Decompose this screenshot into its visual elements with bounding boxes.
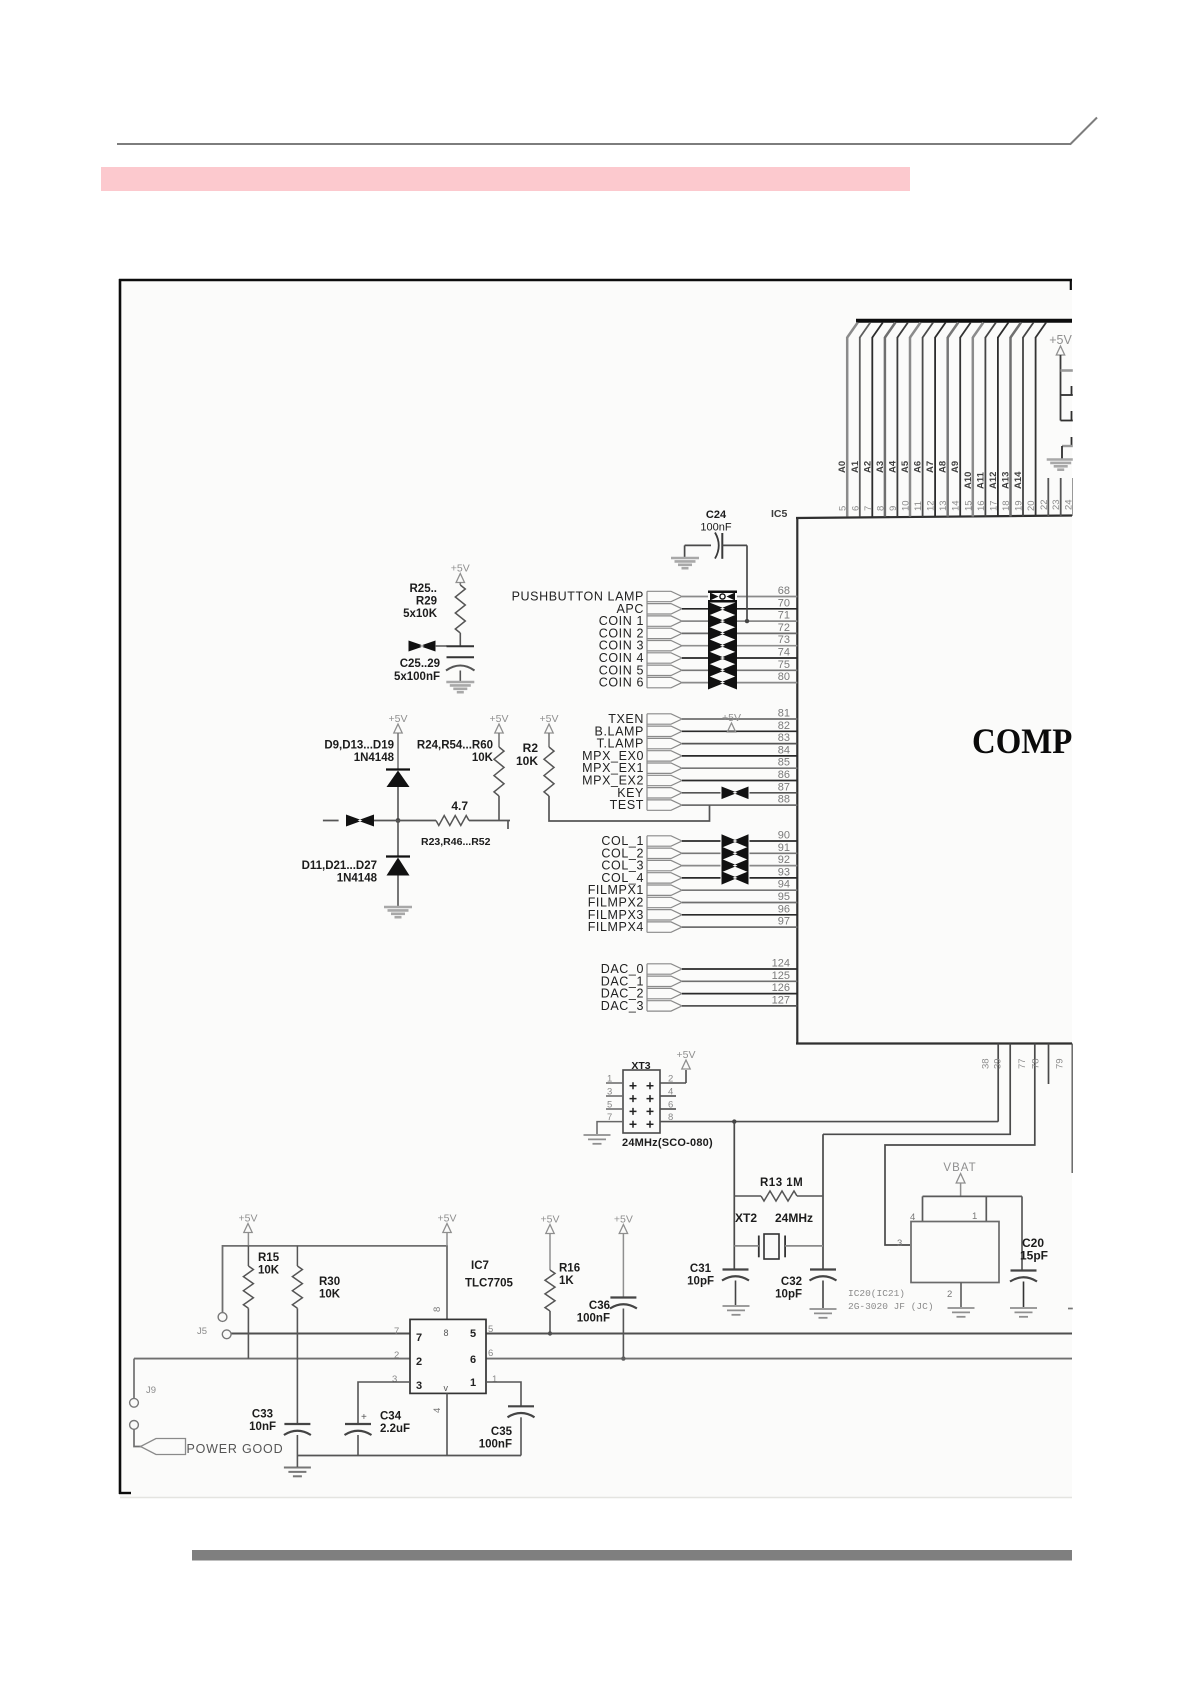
address bus wire A4 pin 9 bbox=[896, 337, 898, 517]
address bus wire A15 pin 20 bbox=[1035, 337, 1037, 517]
white mask beyond scan edge bbox=[1073, 210, 1190, 1540]
XT3 pin 4 stub bbox=[660, 1095, 676, 1097]
wire R13 left bbox=[734, 1195, 761, 1197]
svg-text:3: 3 bbox=[392, 1374, 397, 1385]
svg-text:R23,R46...R52: R23,R46...R52 bbox=[421, 836, 491, 848]
filter bead (pin 90) bbox=[722, 834, 749, 847]
svg-text:91: 91 bbox=[778, 842, 790, 854]
net flag bbox=[647, 775, 682, 785]
wire R25 to C25 bbox=[459, 633, 461, 646]
svg-text:+: + bbox=[361, 1412, 367, 1423]
capacitor C33 bbox=[284, 1423, 310, 1425]
wire D11 to gnd bbox=[397, 876, 399, 907]
wire C24 to pin71 node bbox=[722, 544, 747, 546]
net flag bbox=[647, 751, 682, 761]
wire C34 to bottom net bbox=[357, 1435, 359, 1456]
IC5 pin 79 drop (clipped) bbox=[1072, 1044, 1074, 1174]
net flag bbox=[647, 922, 682, 932]
wire R13 right bbox=[797, 1195, 823, 1197]
svg-text:88: 88 bbox=[778, 794, 790, 806]
svg-text:R30: R30 bbox=[319, 1276, 340, 1288]
svg-text:C33: C33 bbox=[252, 1409, 273, 1421]
svg-text:2G-3020 JF (JC): 2G-3020 JF (JC) bbox=[848, 1301, 934, 1312]
svg-text:78: 78 bbox=[1031, 1058, 1042, 1069]
IC5 pin 78 stub bbox=[1048, 1044, 1050, 1085]
svg-text:38: 38 bbox=[981, 1058, 992, 1069]
wire FILMPX4 to IC5 pin 97 bbox=[682, 926, 797, 928]
svg-text:93: 93 bbox=[778, 866, 790, 878]
svg-text:A13: A13 bbox=[1000, 472, 1011, 489]
wire +5V to C36 bbox=[622, 1234, 624, 1298]
net flag bbox=[647, 714, 682, 724]
rail: J5 / IC7 pin7 / pin5 line bbox=[231, 1333, 410, 1335]
capacitor C32 bbox=[810, 1268, 836, 1270]
svg-text:10K: 10K bbox=[258, 1265, 280, 1277]
address bus wire A2 pin 7 bbox=[871, 337, 873, 517]
svg-text:84: 84 bbox=[778, 744, 790, 756]
ground (C33 net) bbox=[284, 1467, 311, 1469]
svg-text:10K: 10K bbox=[472, 752, 494, 764]
svg-text:IC5: IC5 bbox=[771, 508, 788, 520]
svg-text:126: 126 bbox=[772, 982, 790, 994]
wire FILMPX1 to IC5 pin 94 bbox=[682, 889, 797, 891]
svg-text:A8: A8 bbox=[938, 461, 949, 473]
svg-text:74: 74 bbox=[778, 647, 790, 659]
svg-text:R24,R54...R60: R24,R54...R60 bbox=[417, 740, 493, 752]
wire APC to IC5 pin 70 bbox=[682, 608, 708, 610]
ground (D11) bbox=[384, 906, 412, 909]
svg-text:94: 94 bbox=[778, 879, 790, 891]
wire DAC_2 to IC5 pin 126 bbox=[682, 993, 797, 995]
wire COIN 2 to IC5 pin 72 bbox=[682, 632, 708, 634]
svg-text:127: 127 bbox=[772, 994, 790, 1006]
wire XT2 right bbox=[785, 1245, 823, 1247]
ground (C24) bbox=[671, 557, 699, 560]
net flag bbox=[647, 763, 682, 773]
net flag bbox=[647, 738, 682, 748]
resistor R13 (1M) bbox=[761, 1191, 797, 1201]
IC5 pin 77 drop to IC20 pin3 bbox=[885, 1044, 1035, 1246]
net flag bbox=[647, 800, 682, 810]
wire COL_3 to IC5 pin 92 bbox=[682, 865, 721, 867]
svg-text:68: 68 bbox=[778, 585, 790, 597]
svg-text:R2: R2 bbox=[523, 741, 539, 755]
svg-text:C32: C32 bbox=[781, 1276, 802, 1288]
svg-text:81: 81 bbox=[778, 708, 790, 720]
IC5 pin 22 stub bbox=[1047, 478, 1049, 516]
svg-text:90: 90 bbox=[778, 830, 790, 842]
svg-text:3: 3 bbox=[897, 1238, 902, 1249]
svg-text:7: 7 bbox=[394, 1326, 399, 1337]
svg-text:95: 95 bbox=[778, 891, 790, 903]
wire FILMPX2 to IC5 pin 95 bbox=[682, 902, 797, 904]
IC7 box bbox=[410, 1319, 486, 1393]
header rule diagonal end bbox=[1070, 118, 1097, 145]
svg-text:1N4148: 1N4148 bbox=[354, 752, 395, 764]
resistor R24 (10K) bbox=[494, 747, 504, 796]
svg-text:4.7: 4.7 bbox=[451, 799, 468, 813]
wire rail to J9 bbox=[133, 1359, 135, 1398]
svg-text:A10: A10 bbox=[963, 472, 974, 489]
svg-text:5: 5 bbox=[838, 506, 849, 511]
svg-text:R13 1M: R13 1M bbox=[760, 1177, 803, 1189]
svg-text:4: 4 bbox=[668, 1087, 673, 1098]
svg-text:DAC_3: DAC_3 bbox=[601, 999, 644, 1013]
wire XT3 pin2 to +5V bbox=[685, 1070, 687, 1083]
VBAT arrow bbox=[956, 1174, 965, 1184]
net flag bbox=[647, 628, 682, 638]
wire R16 to rail bbox=[549, 1311, 551, 1334]
wire COIN 3 to IC5 pin 73 bbox=[682, 645, 708, 647]
IC5 pin 23 stub bbox=[1060, 478, 1062, 516]
ground (C20) bbox=[1010, 1307, 1037, 1309]
svg-text:D11,D21...D27: D11,D21...D27 bbox=[302, 860, 377, 872]
XT3 pin 1 stub bbox=[606, 1082, 623, 1084]
svg-text:19: 19 bbox=[1014, 500, 1025, 511]
wire XT2 left bbox=[734, 1245, 759, 1247]
address bus wire A0 pin 5 bbox=[846, 337, 849, 517]
wire D9 junction to D11 bbox=[397, 821, 399, 857]
wire DAC_0 to IC5 pin 124 bbox=[682, 968, 797, 970]
wire KEY to IC5 pin 87 bbox=[682, 792, 721, 794]
wire bar to pin4 bbox=[922, 1196, 924, 1221]
svg-text:5x10K: 5x10K bbox=[403, 608, 438, 620]
svg-text:TLC7705: TLC7705 bbox=[465, 1278, 514, 1290]
XT3 pin 2 stub bbox=[660, 1082, 686, 1084]
header rule bbox=[117, 143, 1071, 145]
flag group spine (COL/FILMPX) bbox=[646, 836, 648, 933]
wire MPX_EX2 to IC5 pin 86 bbox=[682, 780, 797, 782]
wire TEST to IC5 pin 88 bbox=[682, 804, 797, 806]
svg-text:2: 2 bbox=[416, 1356, 422, 1368]
svg-text:80: 80 bbox=[778, 671, 790, 683]
address bus wire A7 pin 12 bbox=[934, 337, 936, 517]
filter bead (pin 92) bbox=[722, 859, 749, 872]
wire gnd to C24 bbox=[685, 544, 711, 546]
diode D11 (1N4148, cathode up) bbox=[386, 855, 410, 857]
resistor R16 (1K) bbox=[545, 1270, 555, 1311]
svg-text:96: 96 bbox=[778, 903, 790, 915]
svg-text:TEST: TEST bbox=[610, 798, 644, 812]
net flag bbox=[647, 897, 682, 907]
filter bead bbox=[346, 815, 374, 827]
svg-text:23: 23 bbox=[1051, 499, 1062, 510]
svg-text:73: 73 bbox=[778, 634, 790, 646]
svg-text:10pF: 10pF bbox=[775, 1289, 802, 1301]
wire +5V to R2 bbox=[548, 733, 550, 747]
svg-text:100nF: 100nF bbox=[479, 1439, 512, 1451]
svg-text:R29: R29 bbox=[416, 596, 437, 608]
svg-text:2.2uF: 2.2uF bbox=[380, 1423, 410, 1435]
net flag bbox=[647, 665, 682, 675]
XT3 pin 7 stub bbox=[606, 1121, 623, 1123]
net flag bbox=[647, 885, 682, 895]
svg-text:2: 2 bbox=[668, 1074, 673, 1085]
svg-text:100nF: 100nF bbox=[700, 522, 731, 534]
svg-text:IC7: IC7 bbox=[471, 1260, 489, 1272]
filter bead (pin 80) bbox=[708, 676, 737, 690]
XT3 pin 6 stub bbox=[660, 1108, 676, 1110]
svg-text:C24: C24 bbox=[706, 509, 727, 521]
svg-text:10: 10 bbox=[901, 500, 912, 511]
wire horizontal 4.7 net bbox=[323, 820, 339, 822]
svg-text:15pF: 15pF bbox=[1020, 1249, 1048, 1263]
wire COL_1 to IC5 pin 90 bbox=[682, 840, 721, 842]
svg-text:18: 18 bbox=[1001, 500, 1012, 511]
filter bead (pin 73) bbox=[708, 639, 737, 653]
pull-up pack wiring (clipped at edge) bbox=[1060, 355, 1062, 395]
diode D9 (1N4148, cathode up) bbox=[386, 768, 410, 770]
wire FILMPX3 to IC5 pin 96 bbox=[682, 914, 797, 916]
svg-text:92: 92 bbox=[778, 854, 790, 866]
filter bead (pin 71) bbox=[708, 614, 737, 628]
svg-text:6: 6 bbox=[850, 506, 861, 511]
svg-text:A3: A3 bbox=[875, 461, 886, 473]
wire right crystal node up bbox=[822, 1134, 824, 1269]
footer bar bbox=[192, 1550, 1072, 1561]
svg-text:15: 15 bbox=[963, 500, 974, 511]
schematic frame top-right tick bbox=[1070, 280, 1072, 290]
net flag bbox=[647, 848, 682, 858]
wire R23 to R24 bbox=[469, 820, 510, 822]
stub end bbox=[507, 821, 509, 830]
svg-text:1: 1 bbox=[972, 1211, 977, 1222]
ground (IC20) bbox=[948, 1307, 975, 1309]
svg-text:R16: R16 bbox=[559, 1263, 580, 1275]
filter bead (pin 70) bbox=[708, 602, 737, 616]
net flag bbox=[647, 910, 682, 920]
flag group spine (DAC) bbox=[646, 964, 648, 1011]
address bus wire A8 pin 13 bbox=[946, 337, 949, 517]
schematic frame left border bbox=[119, 279, 122, 1494]
ground (pull-up pack) bbox=[1047, 458, 1075, 461]
svg-text:C31: C31 bbox=[690, 1263, 712, 1275]
svg-text:D9,D13...D19: D9,D13...D19 bbox=[324, 740, 394, 752]
svg-text:79: 79 bbox=[1055, 1058, 1066, 1069]
net flag bbox=[647, 788, 682, 798]
net flag bbox=[647, 836, 682, 846]
wire R2 bottom to TEST bbox=[549, 796, 710, 821]
address bus wire A14 pin 19 bbox=[1022, 337, 1024, 517]
svg-text:70: 70 bbox=[778, 597, 790, 609]
IC5 pin 38 drop to XT3 pin8 line bbox=[997, 1044, 999, 1122]
net flag bbox=[647, 726, 682, 736]
scanned schematic background bbox=[120, 280, 1072, 1498]
svg-text:24MHz(SCO-080): 24MHz(SCO-080) bbox=[622, 1137, 713, 1149]
svg-text:POWER GOOD: POWER GOOD bbox=[187, 1442, 284, 1456]
wire C33 to bottom net bbox=[296, 1435, 298, 1456]
flag group spine (coin/lamp flags) bbox=[646, 591, 648, 688]
wire bar to C20 bbox=[1021, 1196, 1023, 1270]
scan bottom faint edge bbox=[120, 1497, 1072, 1499]
svg-text:1K: 1K bbox=[559, 1275, 574, 1287]
capacitor C31 bbox=[723, 1268, 749, 1270]
svg-text:A2: A2 bbox=[862, 461, 873, 473]
svg-text:5: 5 bbox=[607, 1100, 612, 1111]
oscillator XT3 box bbox=[623, 1070, 660, 1133]
wire COIN 4 to IC5 pin 74 bbox=[682, 657, 708, 659]
svg-text:A7: A7 bbox=[925, 461, 936, 473]
wire B.LAMP to IC5 pin 82 bbox=[682, 730, 797, 732]
svg-text:5: 5 bbox=[470, 1328, 476, 1340]
svg-text:124: 124 bbox=[772, 958, 790, 970]
svg-text:11: 11 bbox=[913, 501, 924, 511]
svg-text:12: 12 bbox=[926, 500, 937, 511]
svg-text:97: 97 bbox=[778, 916, 790, 928]
svg-text:39: 39 bbox=[993, 1058, 1004, 1069]
svg-text:A11: A11 bbox=[975, 471, 986, 489]
filter bead (pin 91) bbox=[722, 847, 749, 860]
wire IC20 pin2 to gnd bbox=[960, 1283, 962, 1308]
capacitor C20 bbox=[1011, 1269, 1037, 1271]
XT3 internal pin crosses bbox=[630, 1082, 637, 1089]
wire +5V arrow to rail bbox=[446, 1233, 448, 1246]
resistor R2 (10K) bbox=[544, 747, 554, 796]
XT3 pin 5 stub bbox=[606, 1108, 623, 1110]
svg-text:77: 77 bbox=[1017, 1058, 1028, 1069]
IC5 pin 24 stub bbox=[1072, 478, 1074, 516]
address bus (bold) bbox=[856, 319, 1072, 323]
wire DAC_1 to IC5 pin 125 bbox=[682, 980, 797, 982]
svg-text:7: 7 bbox=[863, 506, 874, 511]
svg-text:75: 75 bbox=[778, 659, 790, 671]
svg-text:A5: A5 bbox=[900, 460, 911, 473]
address bus wire A10 pin 15 bbox=[972, 337, 975, 517]
capacitor C35 bbox=[508, 1405, 534, 1407]
net flag bbox=[647, 873, 682, 883]
svg-text:C35: C35 bbox=[491, 1426, 513, 1438]
address bus wire A9 pin 14 bbox=[959, 337, 961, 517]
capacitor stack C25..C29 plates bbox=[447, 645, 475, 647]
svg-text:10pF: 10pF bbox=[687, 1276, 714, 1288]
svg-text:C34: C34 bbox=[380, 1411, 402, 1423]
wire COL_2 to IC5 pin 91 bbox=[682, 852, 721, 854]
svg-text:A6: A6 bbox=[913, 461, 924, 473]
svg-text:85: 85 bbox=[778, 757, 790, 769]
svg-text:1: 1 bbox=[607, 1074, 612, 1085]
net flag bbox=[647, 1001, 682, 1011]
filter bead (pin 93) bbox=[722, 871, 749, 884]
stub bead to C25 bbox=[435, 645, 447, 647]
wire +5V to R24 bbox=[498, 733, 500, 747]
net flag bbox=[647, 653, 682, 663]
capacitor C34 bbox=[345, 1423, 371, 1425]
svg-text:6: 6 bbox=[470, 1354, 476, 1366]
IC7 pin1 wire to C35 bbox=[486, 1382, 521, 1406]
wire C32 to gnd bbox=[822, 1281, 824, 1309]
ground (XT3) bbox=[584, 1134, 611, 1136]
svg-text:5: 5 bbox=[488, 1324, 493, 1335]
ground (C32) bbox=[810, 1308, 837, 1310]
ground (C31) bbox=[723, 1305, 750, 1307]
capacitor C36 bbox=[610, 1296, 636, 1298]
svg-text:83: 83 bbox=[778, 732, 790, 744]
svg-text:17: 17 bbox=[988, 500, 999, 511]
svg-text:72: 72 bbox=[778, 622, 790, 634]
svg-text:A12: A12 bbox=[988, 472, 999, 489]
wire bead to R23 bbox=[374, 820, 436, 822]
IC5 box top edge bbox=[796, 516, 1072, 519]
wire MPX_EX1 to IC5 pin 85 bbox=[682, 767, 797, 769]
svg-text:COIN 6: COIN 6 bbox=[599, 676, 644, 690]
bottom net wire bbox=[297, 1455, 521, 1457]
svg-text:1N4148: 1N4148 bbox=[337, 873, 378, 885]
wire C31 to gnd bbox=[735, 1281, 737, 1306]
wire MPX_EX0 to IC5 pin 84 bbox=[682, 755, 797, 757]
IC20 top bar bbox=[923, 1195, 1023, 1197]
svg-text:A4: A4 bbox=[887, 460, 898, 473]
svg-text:7: 7 bbox=[607, 1112, 612, 1123]
svg-text:v: v bbox=[444, 1383, 449, 1393]
clipped stub right edge bbox=[1068, 1308, 1074, 1310]
svg-text:1: 1 bbox=[492, 1374, 497, 1385]
svg-text:8: 8 bbox=[668, 1112, 673, 1123]
svg-text:10K: 10K bbox=[516, 754, 538, 768]
wire COL_4 to IC5 pin 93 bbox=[682, 877, 721, 879]
XT3 pin 8 stub bbox=[660, 1121, 998, 1123]
resistor R30 (10K) bbox=[292, 1266, 302, 1308]
+5V rail to IC7 pin8 bbox=[223, 1246, 448, 1320]
svg-text:6: 6 bbox=[488, 1348, 493, 1359]
address bus wire A12 pin 17 bbox=[997, 337, 999, 517]
svg-text:10K: 10K bbox=[319, 1289, 341, 1301]
svg-text:20: 20 bbox=[1026, 500, 1037, 511]
svg-text:A14: A14 bbox=[1013, 471, 1024, 489]
POWER GOOD flag bbox=[141, 1439, 186, 1455]
net flag bbox=[647, 641, 682, 651]
svg-text:1: 1 bbox=[470, 1377, 476, 1389]
filter bead (pin 72) bbox=[708, 627, 737, 641]
wire XT3 pin8 node down to R13/XT2 left bbox=[733, 1122, 735, 1270]
svg-text:22: 22 bbox=[1039, 499, 1050, 510]
svg-text:87: 87 bbox=[778, 781, 790, 793]
wire VBAT to bar bbox=[960, 1183, 962, 1196]
svg-text:125: 125 bbox=[772, 970, 790, 982]
svg-text:8: 8 bbox=[875, 506, 886, 511]
svg-text:A0: A0 bbox=[837, 461, 848, 473]
wire C25 to gnd bbox=[459, 671, 461, 682]
ground (C25) bbox=[446, 681, 474, 684]
svg-text:7: 7 bbox=[416, 1332, 422, 1344]
resistor R15 (10K) bbox=[243, 1266, 253, 1308]
svg-text:VBAT: VBAT bbox=[943, 1162, 976, 1174]
svg-text:C25..29: C25..29 bbox=[400, 658, 440, 670]
resistor R25..R29 (5x10K) bbox=[455, 585, 465, 633]
schematic frame bottom-left foot bbox=[119, 1492, 131, 1494]
address bus wire A11 pin 16 bbox=[984, 337, 986, 517]
svg-text:82: 82 bbox=[778, 720, 790, 732]
svg-text:8: 8 bbox=[432, 1307, 443, 1312]
svg-text:A9: A9 bbox=[950, 461, 961, 473]
svg-text:R15: R15 bbox=[258, 1252, 280, 1264]
svg-text:6: 6 bbox=[668, 1100, 673, 1111]
wire COIN 5 to IC5 pin 75 bbox=[682, 669, 708, 671]
svg-text:J9: J9 bbox=[146, 1385, 156, 1396]
wire bar to pin1 bbox=[985, 1196, 987, 1221]
svg-text:3: 3 bbox=[607, 1087, 612, 1098]
svg-text:100nF: 100nF bbox=[577, 1313, 610, 1325]
svg-text:14: 14 bbox=[951, 500, 962, 511]
IC5 microcontroller box left edge bbox=[796, 518, 798, 1044]
address bus wire A1 pin 6 bbox=[859, 337, 861, 517]
wire C35 to bottom net bbox=[520, 1417, 522, 1455]
svg-text:2: 2 bbox=[394, 1350, 399, 1361]
wire C20 to gnd bbox=[1023, 1282, 1025, 1308]
svg-text:3: 3 bbox=[416, 1380, 422, 1392]
wire PUSHBUTTON LAMP to IC5 pin 68 bbox=[682, 596, 708, 598]
crystal XT2 bbox=[764, 1234, 779, 1259]
wire +5V down to D9 bbox=[397, 733, 399, 770]
